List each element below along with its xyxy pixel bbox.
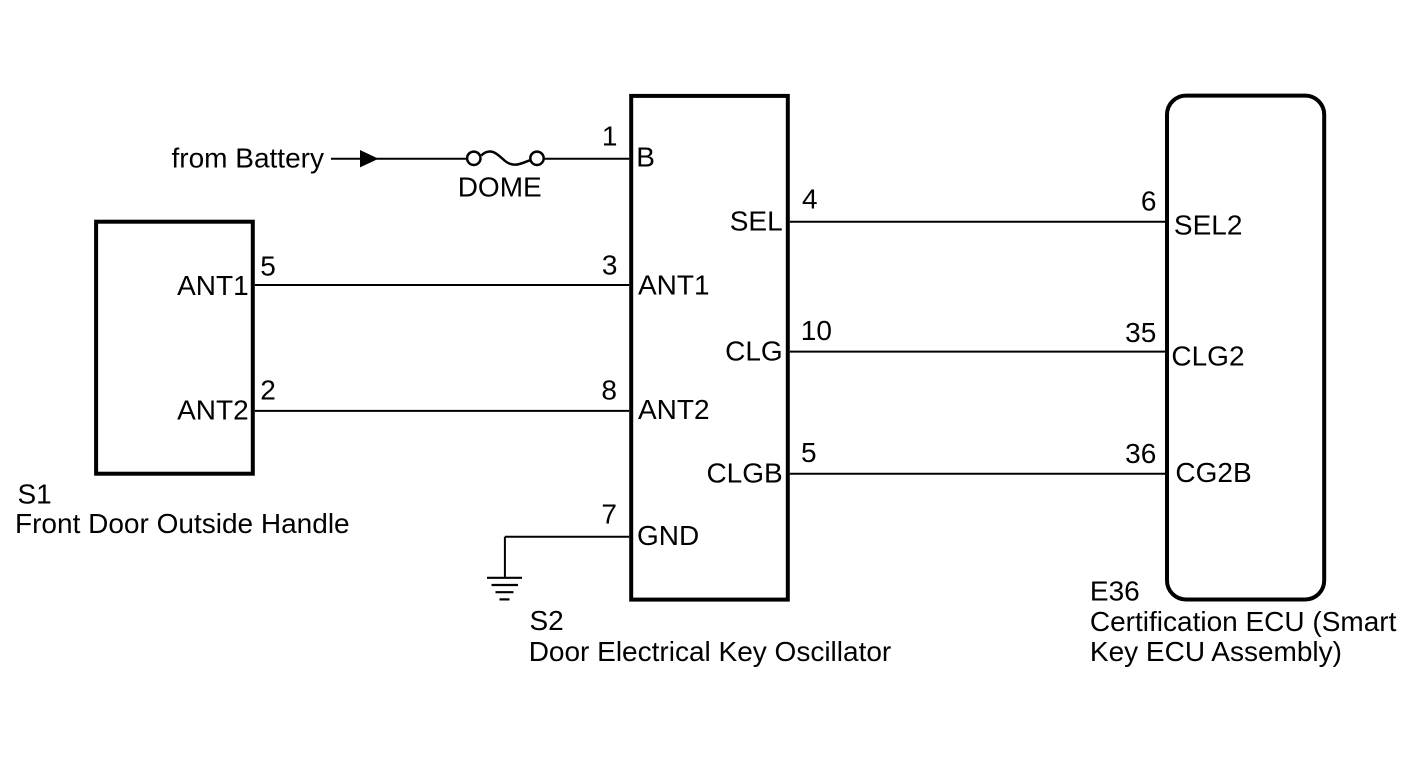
svg-text:7: 7	[601, 499, 617, 530]
svg-text:DOME: DOME	[458, 172, 542, 203]
svg-text:E36: E36	[1090, 576, 1140, 607]
svg-text:ANT1: ANT1	[177, 270, 249, 301]
svg-text:5: 5	[260, 251, 276, 282]
svg-text:1: 1	[602, 120, 618, 151]
svg-text:B: B	[636, 141, 655, 172]
svg-text:Certification ECU (Smart: Certification ECU (Smart	[1090, 606, 1397, 637]
svg-text:CLGB: CLGB	[706, 458, 782, 489]
svg-text:ANT2: ANT2	[177, 394, 249, 425]
svg-text:6: 6	[1141, 186, 1157, 217]
svg-text:35: 35	[1125, 317, 1156, 348]
svg-text:GND: GND	[637, 520, 699, 551]
svg-text:CG2B: CG2B	[1175, 457, 1251, 488]
svg-text:from Battery: from Battery	[172, 143, 324, 174]
svg-text:ANT2: ANT2	[638, 394, 710, 425]
svg-text:10: 10	[801, 315, 832, 346]
svg-text:Front Door Outside Handle: Front Door Outside Handle	[15, 508, 350, 539]
svg-text:Door Electrical Key Oscillator: Door Electrical Key Oscillator	[529, 636, 892, 667]
svg-text:S2: S2	[530, 605, 564, 636]
svg-text:5: 5	[801, 437, 817, 468]
svg-text:8: 8	[601, 375, 617, 406]
svg-text:3: 3	[602, 249, 618, 280]
svg-text:CLG2: CLG2	[1171, 340, 1244, 371]
svg-text:4: 4	[802, 184, 818, 215]
svg-text:2: 2	[260, 375, 276, 406]
svg-text:S1: S1	[18, 479, 52, 510]
svg-text:ANT1: ANT1	[638, 269, 710, 300]
svg-text:CLG: CLG	[725, 336, 783, 367]
svg-text:SEL: SEL	[730, 206, 783, 237]
svg-text:Key ECU Assembly): Key ECU Assembly)	[1090, 636, 1342, 667]
svg-text:36: 36	[1125, 438, 1156, 469]
svg-text:SEL2: SEL2	[1174, 209, 1243, 240]
